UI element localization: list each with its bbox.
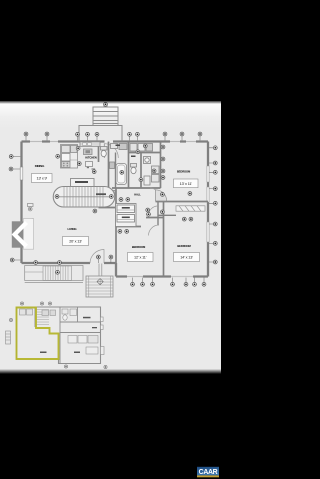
closet hatch bedroom right (176, 206, 205, 211)
svg-text:HALL: HALL (134, 193, 141, 197)
svg-text:BEDROOM: BEDROOM (177, 170, 191, 174)
windows top wall (30, 140, 196, 142)
left wall (20, 142, 22, 264)
back door opening + arc (104, 140, 118, 158)
bottom-left wall (22, 262, 117, 264)
step wall (115, 263, 117, 277)
window left wall (20, 167, 23, 180)
svg-text:KITCHEN: KITCHEN (85, 156, 96, 160)
windows bottom bedroom wall (127, 275, 193, 277)
bedroom dividers (163, 202, 165, 277)
TR bedroom door swing disc (156, 190, 167, 201)
top wall (22, 140, 209, 142)
windows right wall (207, 166, 209, 242)
marker stems (13, 136, 213, 282)
half bath (100, 191, 106, 195)
bottom-right wall (116, 275, 208, 277)
svg-text:BEDROOM: BEDROOM (132, 245, 146, 249)
svg-text:CAAR: CAAR (199, 469, 218, 476)
svg-text:DINING: DINING (35, 164, 45, 168)
lamp fixture living left (28, 204, 34, 211)
basement yellow highlight (17, 308, 59, 360)
svg-text:BEDROOM: BEDROOM (177, 244, 191, 248)
svg-text:14' x 13': 14' x 13' (180, 256, 193, 260)
svg-text:13' x 11': 13' x 11' (180, 182, 193, 186)
svg-text:20' x 13': 20' x 13' (69, 240, 82, 244)
CAAR watermark badge (197, 465, 219, 477)
open door leaf (left wall) (23, 219, 33, 250)
svg-text:12' x 11': 12' x 11' (134, 256, 147, 260)
svg-text:LIVING: LIVING (67, 227, 77, 231)
svg-text:13' x 9': 13' x 9' (37, 177, 48, 181)
right wall (207, 142, 209, 277)
